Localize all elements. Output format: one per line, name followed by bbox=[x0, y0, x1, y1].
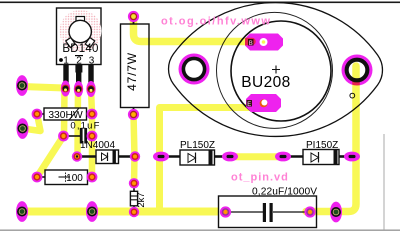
svg-text:2: 2 bbox=[76, 56, 82, 67]
svg-text:47/7W: 47/7W bbox=[125, 52, 139, 91]
svg-text:ot.og.oi/hfv.www: ot.og.oi/hfv.www bbox=[161, 16, 271, 28]
svg-text:BD140: BD140 bbox=[62, 43, 98, 55]
svg-text:1: 1 bbox=[63, 56, 69, 67]
svg-text:3: 3 bbox=[89, 56, 95, 67]
svg-text:ot_pin.vd: ot_pin.vd bbox=[231, 172, 289, 184]
svg-text:B: B bbox=[249, 41, 253, 47]
svg-text:E: E bbox=[247, 102, 251, 108]
svg-text:2k7: 2k7 bbox=[136, 192, 147, 207]
svg-text:100: 100 bbox=[66, 173, 83, 184]
svg-text:BU208: BU208 bbox=[241, 74, 290, 91]
svg-text:330HW: 330HW bbox=[48, 110, 83, 121]
